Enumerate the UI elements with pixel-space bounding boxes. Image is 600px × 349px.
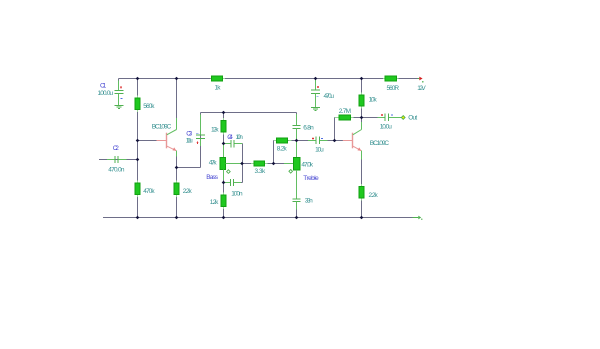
resistor 470k bbox=[135, 181, 140, 198]
svg-text:2.2k: 2.2k bbox=[369, 192, 379, 199]
potentiometer Treble 47.0k bbox=[293, 141, 300, 170]
capacitor 33n bbox=[293, 170, 301, 218]
resistor 3.3k bbox=[242, 161, 274, 166]
ground below C1 bbox=[115, 106, 124, 109]
wiper diamond of Treble pot bbox=[289, 170, 293, 174]
resistor 2.2k (Q2 emitter) bbox=[359, 184, 364, 201]
wire top supply rail bbox=[119, 78, 419, 80]
polarity - of C1 bbox=[120, 98, 122, 100]
junction dots bbox=[136, 77, 364, 220]
svg-text:1k: 1k bbox=[215, 84, 222, 91]
transistor Q1 BC109C bbox=[157, 130, 177, 151]
svg-text:47.0k: 47.0k bbox=[301, 161, 313, 168]
wire Q2 emitter column bbox=[361, 151, 363, 218]
wire tone column lower bbox=[223, 170, 225, 218]
svg-text:33n: 33n bbox=[305, 198, 313, 205]
wire treble wiper row bbox=[274, 163, 285, 165]
capacitor 470u bbox=[311, 79, 320, 108]
polarity - of 470u bbox=[317, 96, 319, 98]
resistor 2.2k (Q1 emitter) bbox=[174, 180, 179, 197]
wire Q2 collector column and 10k column bbox=[361, 79, 363, 118]
svg-text:BC109C: BC109C bbox=[152, 123, 172, 130]
potentiometer Bass 47k bbox=[220, 157, 242, 169]
svg-text:6.8n: 6.8n bbox=[303, 124, 314, 131]
svg-text:8.2k: 8.2k bbox=[277, 146, 288, 153]
svg-text:47k: 47k bbox=[209, 160, 218, 167]
wire Q1 collector column bbox=[176, 79, 178, 130]
svg-text:12k: 12k bbox=[211, 127, 219, 134]
svg-text:100.0u: 100.0u bbox=[98, 90, 114, 97]
ground reference arrow (bottom right) bbox=[413, 216, 423, 220]
capacitor C2 470.0n bbox=[99, 156, 138, 163]
svg-text:1.2k: 1.2k bbox=[210, 199, 219, 206]
svg-text:470.0n: 470.0n bbox=[108, 167, 125, 174]
svg-text:C1: C1 bbox=[100, 83, 107, 90]
wire node A vertical bbox=[273, 141, 275, 164]
svg-text:470k: 470k bbox=[143, 188, 155, 195]
resistor 560k bbox=[135, 95, 140, 112]
ground below 470u bbox=[311, 108, 320, 111]
node Out diamond bbox=[401, 116, 405, 120]
svg-text:BC109C: BC109C bbox=[370, 140, 390, 147]
svg-text:2.7M: 2.7M bbox=[339, 108, 351, 115]
capacitor C1 100.0u bbox=[115, 79, 124, 106]
capacitor C3 10u bbox=[196, 113, 205, 168]
wire tone column upper bbox=[223, 113, 225, 158]
resistor 10k bbox=[359, 92, 364, 108]
capacitor 10.0u output bbox=[362, 114, 402, 122]
wiper diamond of Bass pot bbox=[227, 170, 231, 174]
polarity - of C3 bbox=[196, 132, 198, 134]
wire Q2 base bbox=[335, 140, 343, 142]
svg-text:10u: 10u bbox=[315, 147, 324, 154]
svg-text:10.0u: 10.0u bbox=[380, 123, 393, 130]
svg-text:560R: 560R bbox=[387, 85, 400, 92]
svg-text:10u: 10u bbox=[186, 138, 193, 145]
resistor 1.2k bbox=[221, 192, 226, 209]
wire bottom ground rail bbox=[103, 217, 413, 219]
svg-text:10n: 10n bbox=[236, 134, 244, 141]
wire Q1 base bbox=[138, 140, 157, 142]
svg-text:3.3k: 3.3k bbox=[255, 168, 266, 175]
wire Q1 emitter column bbox=[176, 151, 178, 218]
wire tone network top bbox=[201, 112, 297, 114]
svg-text:Bass: Bass bbox=[206, 174, 218, 181]
polarity - of 10.0u bbox=[391, 114, 393, 116]
svg-text:470u: 470u bbox=[324, 93, 335, 100]
resistor 12k bbox=[221, 118, 226, 135]
polarity + of 470u bbox=[317, 86, 319, 88]
resistor 2.7M bbox=[335, 115, 362, 120]
polarity + of C1 bbox=[120, 86, 122, 88]
transistor Q2 BC109C bbox=[343, 130, 362, 151]
wire Q1 emitter to C3 bbox=[177, 167, 201, 169]
svg-text:C4: C4 bbox=[227, 134, 233, 141]
capacitor C4 10n bbox=[224, 140, 243, 164]
polarity + of 10u bbox=[312, 137, 314, 139]
svg-text:C3: C3 bbox=[186, 130, 192, 137]
capacitor 10u (treble to Q2) bbox=[297, 137, 335, 145]
resistor 8.2k bbox=[274, 138, 297, 143]
polarity + of 10.0u bbox=[381, 114, 383, 116]
resistor 560R bbox=[383, 76, 399, 81]
svg-text:2.2k: 2.2k bbox=[183, 188, 193, 195]
svg-text:100n: 100n bbox=[231, 190, 243, 197]
supply 12V arrow bbox=[418, 77, 424, 83]
capacitor 6.8n bbox=[293, 113, 301, 141]
svg-text:Treble: Treble bbox=[303, 175, 319, 182]
svg-text:560k: 560k bbox=[143, 103, 155, 110]
svg-text:12V: 12V bbox=[417, 85, 426, 92]
polarity + of C3 bbox=[196, 142, 198, 144]
svg-text:Out: Out bbox=[408, 115, 417, 122]
wire Q2 base junction column bbox=[334, 118, 336, 141]
svg-text:10k: 10k bbox=[369, 96, 378, 103]
svg-text:C2: C2 bbox=[113, 145, 119, 152]
resistor 1k (supply decoupling) bbox=[211, 76, 226, 81]
capacitor 100n bbox=[224, 164, 243, 187]
wire bias column x=138 bbox=[137, 79, 139, 218]
polarity - of 10u bbox=[321, 137, 323, 139]
